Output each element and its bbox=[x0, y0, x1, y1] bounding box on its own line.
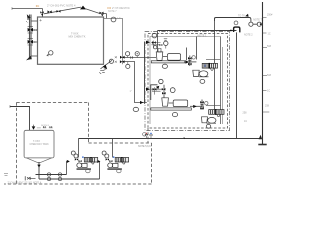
flame arrestor apex bbox=[80, 6, 86, 10]
injection line junction tick bbox=[184, 137, 185, 139]
drain tag circle bbox=[133, 107, 138, 111]
flange pair 2 bbox=[58, 173, 61, 176]
svg-text:NOTE 1: NOTE 1 bbox=[198, 34, 208, 37]
tank drain cluster bbox=[101, 60, 113, 69]
lower tap run bbox=[123, 62, 147, 103]
metering pump A: suction riser bbox=[66, 162, 69, 175]
upper skid: suction drop bbox=[157, 31, 159, 52]
lower tap marks bbox=[115, 61, 117, 63]
upper right group: feed drop bbox=[186, 48, 188, 61]
pump B inlet arrow bbox=[97, 160, 100, 163]
tap marks bbox=[115, 56, 117, 58]
lower right suction spur bbox=[206, 105, 221, 107]
small instrument near boundary bbox=[143, 133, 147, 137]
lower run valve bbox=[120, 60, 125, 63]
svg-text:2"-CH-003-PVC SC-101 NOTE 4: 2"-CH-003-PVC SC-101 NOTE 4 bbox=[8, 182, 42, 184]
upper right group: pump bbox=[193, 70, 199, 76]
svg-text:FC: FC bbox=[36, 4, 40, 8]
lower right group: vertical fitting stack bbox=[201, 100, 203, 111]
upper skid: instrument C2 bbox=[164, 41, 168, 45]
svg-text:TO TK: TO TK bbox=[238, 15, 245, 18]
valve above day tank bbox=[32, 126, 36, 129]
upper skid: inlet arrow bbox=[146, 41, 150, 44]
svg-text:NOTE 8: NOTE 8 bbox=[41, 125, 50, 127]
lower skid: pump volute bbox=[162, 98, 169, 106]
svg-text:258: 258 bbox=[243, 112, 248, 115]
outlet valve bbox=[37, 165, 40, 168]
lower run gauge below bbox=[126, 64, 130, 68]
svg-text:LG: LG bbox=[118, 17, 121, 20]
junction dot bbox=[230, 30, 232, 32]
day tank outlet bbox=[36, 162, 40, 179]
svg-text:2"-CH-001-PVC NOTE 4: 2"-CH-001-PVC NOTE 4 bbox=[47, 3, 76, 7]
bottom manifold arrow bbox=[31, 55, 37, 57]
upper run valve 1 bbox=[120, 56, 125, 59]
metering pump B: suction riser bbox=[98, 162, 101, 180]
valve V2 bbox=[31, 41, 37, 43]
level chamber bbox=[104, 19, 123, 65]
fill pipe top-left bbox=[12, 9, 43, 18]
level instrument LG bbox=[111, 17, 116, 22]
seal pot elbow bbox=[234, 27, 240, 32]
long discharge line bbox=[158, 30, 237, 32]
upper run gauge PI-2 bbox=[135, 52, 139, 56]
bar labels bbox=[265, 14, 273, 108]
inner skid rect bbox=[150, 37, 221, 125]
instrument bubble A2 bbox=[257, 22, 261, 26]
svg-text:CHEM DAY TANK: CHEM DAY TANK bbox=[30, 143, 50, 146]
upper right group: tag bbox=[200, 79, 205, 83]
fill pipe end tick bbox=[11, 7, 13, 10]
pump A gauges bbox=[71, 151, 75, 155]
svg-text:NOTE 7: NOTE 7 bbox=[108, 10, 117, 13]
pump A dampener block bbox=[84, 157, 97, 162]
upper tap run bbox=[123, 57, 157, 59]
day tank label bbox=[30, 140, 50, 146]
skid feed drop from overhead bbox=[214, 18, 216, 64]
connect to header bar bbox=[253, 23, 262, 25]
tank T-100 label bbox=[69, 32, 86, 39]
svg-text:MIX CHEM TK: MIX CHEM TK bbox=[69, 35, 86, 39]
lower right group: pump bbox=[202, 117, 208, 123]
svg-text:1": 1" bbox=[130, 90, 132, 93]
pump A baseplate bbox=[77, 168, 92, 169]
lower skid: instrument C2 bbox=[170, 88, 175, 93]
feed pipe to day tank bbox=[10, 107, 30, 131]
lower right group: tag bbox=[206, 124, 210, 128]
boundary drop to lower enclosure bbox=[147, 128, 149, 143]
pump A funnel bbox=[91, 162, 94, 164]
vent valve A bbox=[48, 10, 52, 13]
upper run flange bbox=[131, 56, 133, 58]
flange pair 1 bbox=[47, 173, 50, 176]
bar tick 6 bbox=[263, 111, 270, 113]
right internal header bbox=[220, 37, 222, 125]
pump B tag bbox=[117, 169, 121, 173]
upper skid: baseplate bbox=[151, 61, 186, 63]
fill valve bbox=[40, 11, 43, 16]
svg-text:50#: 50# bbox=[267, 45, 272, 48]
drain arrow into skid bbox=[140, 101, 143, 104]
day tank cone bbox=[27, 158, 52, 163]
svg-text:2.5: 2.5 bbox=[34, 28, 38, 32]
top arrow into manifold bbox=[27, 14, 31, 19]
pump A discharge riser bbox=[78, 139, 80, 158]
inline check valves with colored dots bbox=[145, 133, 153, 139]
lower-left enclosure dashed bbox=[4, 103, 152, 185]
lower right group: funnel bbox=[217, 114, 220, 116]
lower skid: motor bbox=[173, 100, 188, 107]
bar tick 4 bbox=[263, 75, 268, 77]
upper skid: pump tag bbox=[162, 64, 167, 68]
upper skid: instrument C1 bbox=[152, 33, 157, 38]
upper right suction spur bbox=[206, 59, 221, 61]
agitator M1 (circle with tail) bbox=[47, 51, 53, 57]
upper right group: dampener block bbox=[202, 63, 217, 69]
pump A inlet arrow bbox=[67, 160, 70, 163]
circle A tag bbox=[234, 21, 238, 25]
tank vent mark bbox=[40, 19, 42, 21]
lower skid: inlet arrow bbox=[146, 88, 150, 91]
injection line to header bbox=[79, 138, 261, 140]
left edge marks bbox=[4, 174, 8, 176]
lower skid: check arrow bbox=[156, 86, 159, 89]
lower skid: valve stack bbox=[163, 85, 165, 98]
vent valve B bbox=[57, 10, 61, 13]
suction pipe B bbox=[39, 178, 100, 180]
pump B dampener block bbox=[115, 157, 128, 162]
arrow on overhead bbox=[245, 14, 248, 17]
upper skid: motor bbox=[167, 54, 180, 61]
bar tick 5 bbox=[263, 90, 267, 92]
injection drop pipe bbox=[236, 32, 238, 138]
pump B funnel bbox=[122, 162, 125, 164]
upper right group: funnel bbox=[210, 68, 213, 70]
nozzle stub top bbox=[31, 20, 37, 22]
pump B gauges bbox=[102, 151, 106, 155]
tank T-100 outline bbox=[38, 17, 104, 64]
vent valve C bbox=[100, 12, 104, 17]
svg-text:NOTE 2: NOTE 2 bbox=[244, 33, 253, 36]
lower right group: dampener block bbox=[209, 109, 224, 115]
pump B pump body bbox=[108, 163, 113, 168]
drop into upper group bbox=[195, 37, 197, 60]
svg-text:258: 258 bbox=[265, 105, 270, 108]
pump A tag bbox=[86, 169, 90, 173]
svg-text:1C: 1C bbox=[268, 33, 271, 36]
svg-text:50#: 50# bbox=[267, 74, 272, 77]
pump A pump body bbox=[77, 163, 82, 168]
pump B discharge riser bbox=[112, 139, 114, 158]
right internal header second line bbox=[221, 47, 223, 124]
header bar foot bbox=[258, 144, 266, 146]
header bar right bbox=[262, 2, 264, 144]
outer boundary box (dash-dot) bbox=[145, 32, 230, 131]
arrow into bar bbox=[259, 135, 263, 140]
left manifold header bbox=[30, 15, 32, 60]
drain junction tick bbox=[144, 101, 146, 104]
upper right group: inlet arrow bbox=[184, 61, 196, 63]
suction pipe A bbox=[36, 174, 67, 176]
pump B baseplate bbox=[107, 168, 122, 169]
valve V1 bbox=[31, 29, 37, 31]
vent slope right bbox=[86, 9, 107, 14]
lower skid: pump tag bbox=[172, 113, 177, 117]
inner dashed box bbox=[148, 34, 228, 129]
drain valve cluster left bbox=[27, 177, 36, 179]
bar tick 2 bbox=[263, 47, 268, 49]
upper skid: pump volute bbox=[156, 52, 163, 60]
suction header pipe bbox=[144, 42, 146, 103]
upper skid: valve stack bbox=[151, 41, 161, 49]
bar tick 3 bbox=[263, 32, 267, 34]
pump A valves bbox=[75, 158, 78, 160]
vent slope left bbox=[44, 7, 81, 14]
overhead line upper bbox=[215, 18, 251, 22]
svg-text:NOTE 5,6,9: NOTE 5,6,9 bbox=[138, 145, 151, 148]
upper run gauge PI-1 bbox=[126, 52, 130, 56]
instrument bubble A1 bbox=[249, 22, 253, 26]
bar tick 1 bbox=[263, 17, 267, 19]
day tank fittings row bbox=[37, 127, 53, 129]
lower right group: inlet arrow bbox=[190, 105, 202, 107]
vent nozzle drop bbox=[106, 14, 108, 19]
pump B valves bbox=[106, 158, 109, 160]
svg-text:1C: 1C bbox=[267, 90, 270, 93]
lower skid: baseplate bbox=[151, 108, 192, 110]
upper right group: vertical fitting stack bbox=[189, 56, 191, 67]
lower skid: instrument C1 bbox=[159, 79, 163, 83]
day tank T-200 bbox=[24, 130, 54, 158]
svg-text:1C: 1C bbox=[244, 120, 247, 123]
svg-text:250#: 250# bbox=[267, 14, 273, 17]
